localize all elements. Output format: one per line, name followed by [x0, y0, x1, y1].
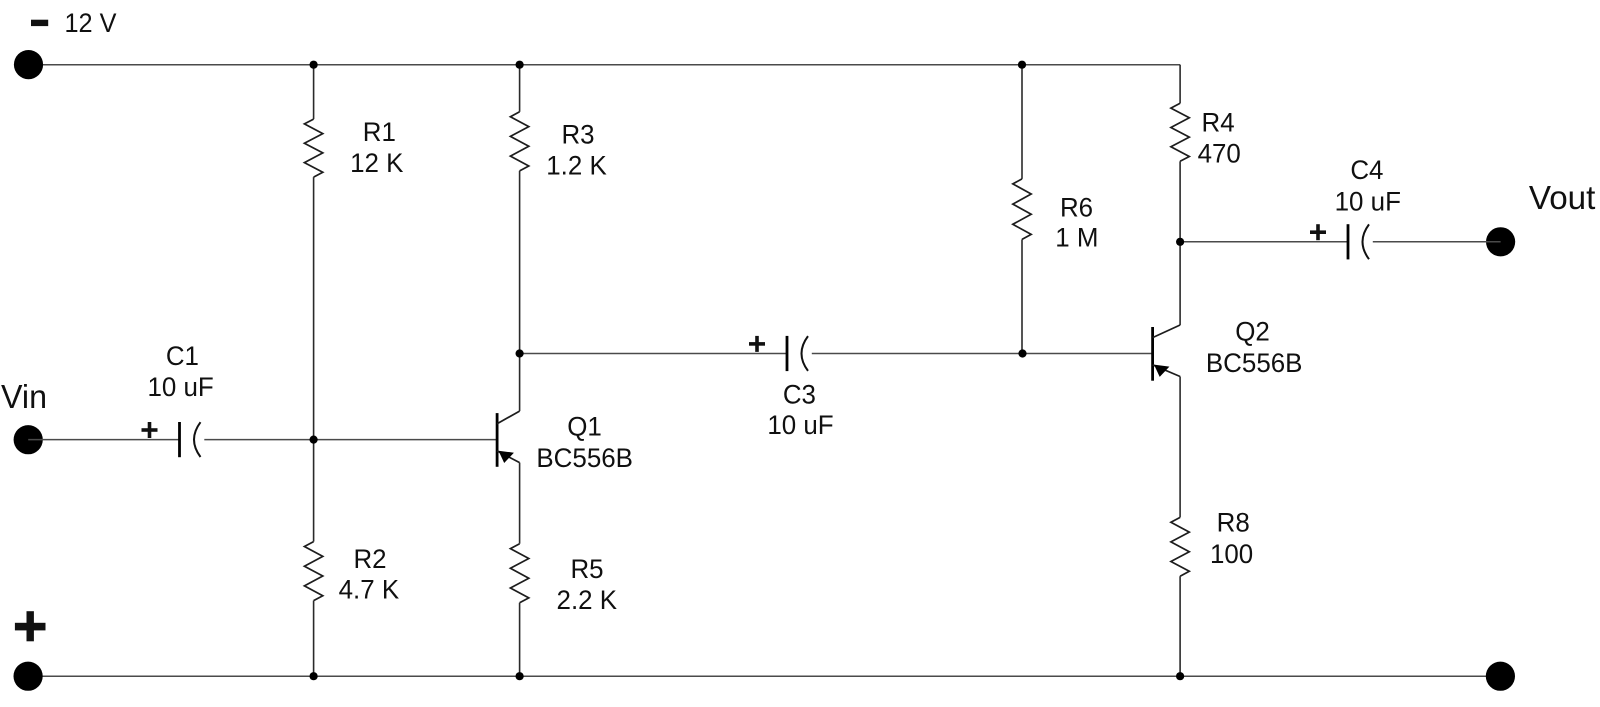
wire R4 bottom lead to Vout node — [1179, 161, 1181, 242]
svg-text:10 uF: 10 uF — [1335, 186, 1401, 216]
wire C4 to Vout terminal — [1373, 241, 1501, 243]
wire R6 top lead — [1021, 65, 1023, 179]
capacitor C4 — [1348, 224, 1369, 259]
svg-text:C4: C4 — [1350, 155, 1383, 185]
svg-text:Q2: Q2 — [1235, 317, 1270, 347]
wire collector node to C3 — [520, 353, 787, 355]
svg-text:12 K: 12 K — [350, 148, 403, 178]
resistor R4 — [1171, 103, 1189, 161]
svg-text:1 M: 1 M — [1055, 222, 1098, 252]
wire R5 bottom lead — [519, 603, 521, 676]
wire R6 bottom lead — [1021, 239, 1023, 353]
transistor Q2 — [1153, 325, 1181, 381]
wire R2 top lead — [313, 440, 315, 542]
svg-text:R2: R2 — [353, 544, 386, 574]
resistor R6 — [1013, 179, 1031, 240]
junction top rail / R1 — [310, 61, 318, 69]
wire rail corner to R4 — [1179, 65, 1181, 104]
svg-text:R1: R1 — [363, 117, 396, 147]
label - negative supply polarity — [31, 20, 48, 26]
label R3 1.2 K — [546, 120, 607, 181]
svg-text:R5: R5 — [570, 554, 603, 584]
resistor R2 — [304, 542, 322, 601]
svg-text:2.2 K: 2.2 K — [557, 585, 618, 615]
junction Q1 collector / C3 wire — [516, 349, 524, 357]
label Q1 BC556B — [536, 412, 633, 473]
node bottom-right supply terminal — [1486, 662, 1515, 691]
wire C1 to Q1 base — [204, 439, 497, 441]
label R1 12 K — [350, 117, 403, 178]
wire C3 to Q2 base — [812, 353, 1153, 355]
label R6 1 M — [1055, 193, 1098, 253]
svg-text:12 V: 12 V — [65, 8, 117, 38]
resistor R1 — [304, 119, 322, 177]
junction base wire / R1-R2 column — [310, 436, 318, 444]
junction top rail / R6 — [1018, 61, 1026, 69]
svg-text:C3: C3 — [783, 380, 816, 410]
svg-text:100: 100 — [1210, 539, 1253, 569]
wire Q1 emitter to R5 — [519, 463, 521, 544]
node Vin input terminal — [14, 425, 43, 454]
wire R2 bottom lead — [313, 601, 315, 677]
resistor R3 — [510, 112, 528, 171]
svg-text:470: 470 — [1198, 139, 1241, 169]
wire R3 bottom lead to collector node — [519, 171, 521, 354]
svg-text:R4: R4 — [1202, 108, 1235, 138]
junction R6 / Q2 base wire — [1018, 349, 1026, 357]
svg-text:4.7 K: 4.7 K — [339, 574, 400, 604]
label + polarity of C3 — [749, 336, 765, 352]
svg-text:10 uF: 10 uF — [147, 372, 213, 402]
wire R1 top lead — [313, 65, 315, 119]
wire R3 top lead — [519, 65, 521, 112]
wire top supply rail — [29, 64, 1181, 66]
junction bottom rail / R5 — [516, 672, 524, 680]
svg-text:R8: R8 — [1217, 508, 1250, 538]
svg-text:1.2 K: 1.2 K — [546, 150, 607, 180]
junction top rail / R3 — [516, 61, 524, 69]
capacitor C1 — [180, 422, 201, 457]
node -12V supply terminal — [14, 50, 43, 79]
label C4 10 uF — [1335, 155, 1401, 216]
label R2 4.7 K — [339, 544, 400, 604]
junction R4 / Q2 collector / C4 wire — [1176, 238, 1184, 246]
label + positive supply polarity — [15, 611, 46, 641]
node bottom-left + supply terminal — [14, 662, 43, 691]
wire bottom supply rail — [28, 675, 1500, 677]
transistor Q1 — [497, 411, 519, 467]
wire Vout node to C4 — [1180, 241, 1348, 243]
svg-text:Vout: Vout — [1529, 179, 1596, 216]
wire Q2 emitter to R8 — [1179, 377, 1181, 518]
svg-text:R3: R3 — [561, 120, 594, 150]
wire Q2 collector vertical — [1179, 242, 1181, 325]
label C3 10 uF — [767, 380, 833, 440]
junction bottom rail / R8 — [1176, 672, 1184, 680]
svg-text:BC556B: BC556B — [536, 443, 633, 473]
wire R8 bottom lead — [1179, 576, 1181, 676]
label R4 470 — [1198, 108, 1241, 169]
resistor R8 — [1171, 517, 1189, 576]
svg-text:BC556B: BC556B — [1206, 348, 1303, 378]
svg-text:Q1: Q1 — [567, 412, 602, 442]
node Vout output terminal — [1486, 227, 1515, 256]
svg-text:R6: R6 — [1060, 193, 1093, 223]
label Q2 BC556B — [1206, 317, 1303, 378]
wire R1 bottom lead — [313, 177, 315, 440]
resistor R5 — [510, 544, 528, 603]
label R5 2.2 K — [557, 554, 618, 615]
wire Q1 collector vertical — [519, 354, 521, 412]
svg-text:10 uF: 10 uF — [767, 410, 833, 440]
capacitor C3 — [787, 336, 808, 371]
label C1 10 uF — [147, 341, 213, 402]
label + polarity of C4 — [1310, 224, 1326, 240]
junction bottom rail / R2 — [310, 672, 318, 680]
label + polarity of C1 — [142, 422, 158, 438]
svg-text:C1: C1 — [166, 341, 199, 371]
svg-text:Vin: Vin — [1, 378, 47, 415]
label R8 100 — [1210, 508, 1253, 569]
wire Vin to C1 — [28, 439, 179, 441]
